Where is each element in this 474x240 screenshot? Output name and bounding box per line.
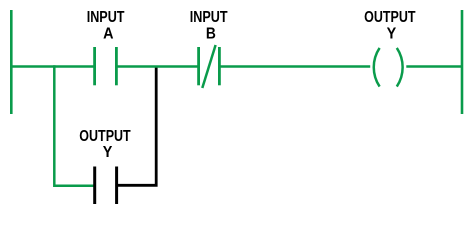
contact A right bar (115, 47, 118, 85)
contact A (normally open) left bar (93, 47, 96, 85)
left power rail (10, 10, 13, 114)
svg-text:OUTPUT: OUTPUT (364, 9, 416, 26)
svg-text:A: A (103, 25, 113, 42)
wire: rung segment contact B to coil (221, 65, 371, 67)
svg-text:INPUT: INPUT (190, 9, 228, 26)
wire: rung segment coil to right rail (406, 65, 463, 67)
svg-text:B: B (206, 25, 216, 42)
coil OUTPUT Y left paren (374, 48, 380, 87)
svg-text:OUTPUT: OUTPUT (79, 128, 131, 145)
wire: green branch down and across to latch contact (54, 65, 94, 186)
contact B right bar (218, 47, 221, 85)
wire: rung segment rail to contact A (10, 65, 94, 67)
right power rail (461, 10, 464, 114)
wire: black branch return (vertical + horizontal to contact) (118, 67, 156, 185)
latch contact OUTPUT Y left bar (black) (93, 167, 96, 205)
svg-text:Y: Y (387, 25, 397, 42)
svg-text:INPUT: INPUT (87, 9, 125, 26)
wire: rung segment contact A to contact B (118, 65, 200, 67)
contact B NC slash (202, 45, 215, 88)
latch contact OUTPUT Y right bar (black) (115, 167, 118, 205)
svg-text:Y: Y (103, 144, 113, 161)
contact B (normally closed) left bar (197, 47, 200, 85)
coil OUTPUT Y right paren (397, 48, 403, 87)
